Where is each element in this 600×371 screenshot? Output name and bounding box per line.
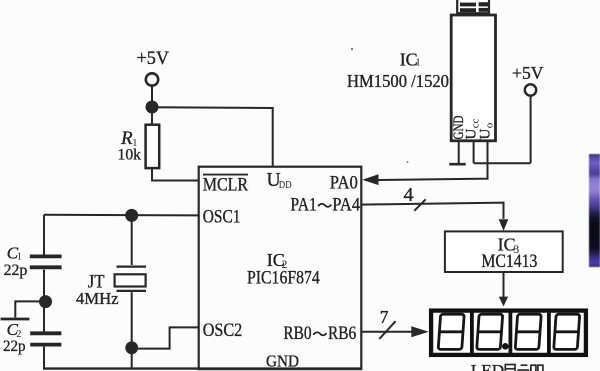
svg-text:o: o bbox=[483, 122, 495, 128]
svg-text:RB0: RB0 bbox=[283, 323, 311, 344]
svg-text:PA1: PA1 bbox=[290, 195, 317, 216]
svg-text:U: U bbox=[477, 129, 493, 140]
svg-text:GND: GND bbox=[266, 351, 299, 370]
svg-text:1: 1 bbox=[415, 56, 421, 68]
svg-text:4: 4 bbox=[404, 184, 414, 206]
svg-text:PA4: PA4 bbox=[332, 195, 360, 216]
svg-text:22p: 22p bbox=[4, 262, 28, 279]
svg-text:10k: 10k bbox=[118, 147, 142, 164]
svg-text:DD: DD bbox=[279, 180, 292, 191]
svg-text:OSC1: OSC1 bbox=[203, 206, 241, 227]
svg-text:7: 7 bbox=[380, 307, 389, 327]
svg-text:+5V: +5V bbox=[137, 48, 170, 69]
svg-text:PIC16F874: PIC16F874 bbox=[247, 268, 320, 289]
svg-text:OSC2: OSC2 bbox=[203, 320, 243, 341]
svg-text:22p: 22p bbox=[3, 338, 26, 355]
svg-text:MC1413: MC1413 bbox=[481, 251, 537, 272]
svg-text:HM1500 /1520: HM1500 /1520 bbox=[347, 71, 449, 91]
svg-text:MCLR: MCLR bbox=[203, 175, 249, 196]
svg-text:4MHz: 4MHz bbox=[76, 289, 119, 308]
svg-text:RB6: RB6 bbox=[328, 323, 356, 344]
svg-text:PA0: PA0 bbox=[330, 173, 358, 194]
svg-text:cc: cc bbox=[470, 118, 482, 128]
svg-text:LED: LED bbox=[471, 361, 504, 371]
svg-text:+5V: +5V bbox=[512, 63, 544, 83]
